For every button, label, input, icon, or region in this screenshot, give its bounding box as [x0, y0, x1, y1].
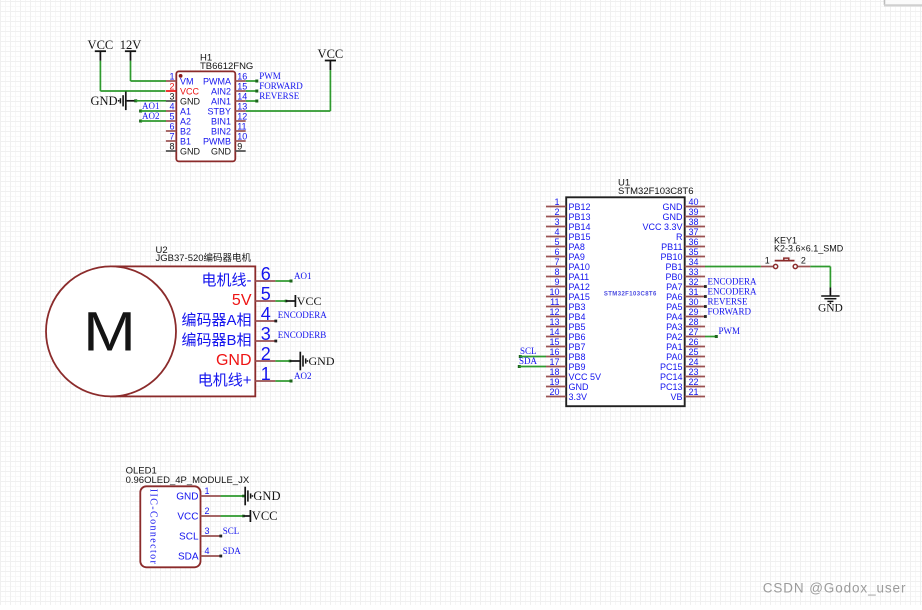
U1 pin 2 (PB13) left: [546, 216, 566, 218]
svg-text:REVERSE: REVERSE: [259, 91, 300, 101]
svg-text:VM: VM: [180, 76, 194, 86]
U1 pin 5 (PA8) left: [546, 246, 566, 248]
svg-text:VCC: VCC: [297, 294, 322, 308]
svg-text:PWMB: PWMB: [203, 136, 231, 146]
svg-text:1: 1: [205, 486, 210, 496]
wire FORWARD at H1 pin 15: [246, 90, 257, 92]
svg-text:PA7: PA7: [666, 282, 682, 292]
svg-text:GND: GND: [211, 146, 232, 156]
wire AO1 to H1 pin 4: [139, 110, 142, 113]
U1 pin 21 (VB) right: [685, 396, 705, 398]
ground GND (U2 pin 2): [299, 352, 301, 371]
svg-text:4: 4: [205, 546, 210, 556]
svg-text:6: 6: [261, 264, 271, 284]
wire VCC to H1 pin 2: [99, 61, 101, 91]
svg-text:A1: A1: [180, 106, 191, 116]
svg-text:21: 21: [689, 387, 699, 397]
H1 pin 5 (A2) left: [166, 120, 176, 122]
svg-text:GND: GND: [91, 94, 118, 108]
H1 pin 7 (B1) left: [166, 140, 176, 142]
svg-text:33: 33: [689, 267, 699, 277]
svg-text:B2: B2: [180, 126, 191, 136]
wire OLED1 pin 1 to GND: [221, 495, 244, 497]
wire KEY1 pin 2 to GND: [810, 266, 830, 268]
svg-text:14: 14: [549, 327, 559, 337]
svg-text:BIN2: BIN2: [211, 126, 231, 136]
svg-text:PA4: PA4: [666, 312, 682, 322]
svg-text:PA2: PA2: [666, 332, 682, 342]
U1 pin 15 (PB7) left: [546, 346, 566, 348]
OLED1 pin 2 (VCC): [201, 515, 221, 517]
svg-text:2: 2: [205, 506, 210, 516]
svg-text:ENCODERA: ENCODERA: [708, 277, 757, 287]
H1 pin 9 (GND) right: [235, 150, 245, 152]
wire AO1 at U2 pin 6: [275, 280, 290, 282]
svg-text:PB6: PB6: [569, 332, 586, 342]
svg-text:ENCODERA: ENCODERA: [708, 287, 757, 297]
U1 pin 37 (R) right: [685, 236, 705, 238]
H1 pin-1 marker dot: [179, 74, 183, 78]
IC H1 TB6612FNG body: [176, 71, 235, 161]
OLED1 pin 4 (SDA): [201, 555, 221, 557]
svg-text:FORWARD: FORWARD: [708, 307, 752, 317]
svg-text:25: 25: [689, 347, 699, 357]
svg-text:SCL: SCL: [223, 526, 240, 536]
svg-text:23: 23: [689, 367, 699, 377]
svg-text:8: 8: [554, 267, 559, 277]
svg-text:PA9: PA9: [569, 252, 585, 262]
wire SCL to U1 pin 16: [519, 355, 522, 358]
svg-text:BIN1: BIN1: [211, 116, 231, 126]
svg-text:1: 1: [169, 72, 174, 82]
motor U2 body rectangle: [111, 266, 255, 396]
U1 pin 34 (PB1) right: [685, 266, 705, 268]
svg-text:PA5: PA5: [666, 302, 682, 312]
svg-text:GND: GND: [309, 354, 335, 368]
svg-text:M: M: [83, 300, 136, 363]
svg-text:7: 7: [169, 132, 174, 142]
svg-text:PB0: PB0: [665, 272, 682, 282]
svg-text:1: 1: [261, 364, 271, 384]
ground GND (below KEY1): [821, 295, 839, 297]
svg-text:SDA: SDA: [178, 552, 199, 563]
H1 pin 3 (GND) left: [166, 100, 176, 102]
U1 pin 8 (PA11) left: [546, 276, 566, 278]
svg-text:10: 10: [237, 132, 247, 142]
svg-text:PA11: PA11: [569, 272, 590, 282]
U1 pin 35 (PB10) right: [685, 256, 705, 258]
H1 pin 2 (VCC) left: [166, 90, 176, 92]
svg-text:PC14: PC14: [660, 372, 683, 382]
svg-text:3: 3: [205, 526, 210, 536]
wire AO2 at U2 pin 1: [275, 380, 290, 382]
svg-text:6: 6: [554, 247, 559, 257]
svg-text:VCC: VCC: [318, 47, 344, 61]
U1 pin 9 (PA12) left: [546, 286, 566, 288]
U1 pin 23 (PC14) right: [685, 376, 705, 378]
net label ENCODERB (U2 pin 3): [274, 340, 277, 343]
svg-text:STM32F103C8T6: STM32F103C8T6: [604, 292, 657, 298]
U1 pin 6 (PA9) left: [546, 256, 566, 258]
svg-text:1: 1: [554, 197, 559, 207]
wire AO2 to H1 pin 5: [139, 120, 142, 123]
svg-text:16: 16: [549, 347, 559, 357]
svg-text:22: 22: [689, 377, 699, 387]
svg-text:PB5: PB5: [569, 322, 586, 332]
net label SCL (OLED1 pin 3): [219, 535, 222, 538]
U1 pin 1 (PB12) left: [546, 206, 566, 208]
svg-text:12: 12: [237, 112, 247, 122]
U1 pin 36 (PB11) right: [685, 246, 705, 248]
svg-text:37: 37: [689, 227, 699, 237]
svg-text:PB15: PB15: [569, 232, 591, 242]
svg-text:8: 8: [169, 142, 174, 152]
svg-text:STM32F103C8T6: STM32F103C8T6: [618, 186, 694, 197]
svg-text:4: 4: [554, 227, 559, 237]
svg-text:PA6: PA6: [666, 292, 682, 302]
net label FORWARD (U1 pin 29): [704, 315, 707, 318]
U2 pin 4 (编码器A相): [255, 320, 275, 322]
wire PWM at U1 pin 27: [705, 336, 716, 338]
net label ENCODERA (U2 pin 4): [274, 320, 277, 323]
svg-text:CSDN @Godox_user: CSDN @Godox_user: [763, 580, 907, 595]
svg-text:VCC: VCC: [180, 86, 200, 96]
OLED1 pin 3 (SCL): [201, 535, 221, 537]
H1 pin 13 (STBY) right: [235, 110, 245, 112]
svg-text:电机线-: 电机线-: [202, 272, 252, 289]
svg-text:5: 5: [261, 284, 271, 304]
svg-text:GND: GND: [663, 202, 684, 212]
svg-text:TB6612FNG: TB6612FNG: [200, 61, 253, 72]
U2 pin 2 (GND): [255, 360, 275, 362]
svg-text:PB12: PB12: [569, 202, 591, 212]
U1 pin 19 (GND) left: [546, 386, 566, 388]
svg-text:JGB37-520编码器电机: JGB37-520编码器电机: [156, 252, 252, 264]
svg-text:40: 40: [689, 197, 699, 207]
wire U2 pin 2 to GND: [275, 360, 290, 362]
U1 pin 27 (PA2) right: [685, 336, 705, 338]
svg-text:15: 15: [549, 337, 559, 347]
U2 pin 6 (电机线-): [255, 280, 275, 282]
svg-text:SDA: SDA: [519, 356, 538, 366]
svg-text:6: 6: [169, 122, 174, 132]
svg-text:PB1: PB1: [665, 262, 682, 272]
svg-text:STBY: STBY: [207, 106, 231, 116]
net label ENCODERA (U1 pin 32): [704, 285, 707, 288]
U1 pin 12 (PB4) left: [546, 316, 566, 318]
U1 pin 29 (PA4) right: [685, 316, 705, 318]
UI panel corner top-right: [884, 0, 922, 5]
svg-text:R: R: [676, 232, 683, 242]
svg-text:PA1: PA1: [666, 342, 682, 352]
svg-text:1: 1: [765, 255, 770, 265]
U1 pin 3 (PB14) left: [546, 226, 566, 228]
svg-text:PB8: PB8: [569, 352, 586, 362]
svg-text:VCC: VCC: [252, 509, 278, 523]
svg-text:GND: GND: [663, 212, 684, 222]
svg-text:28: 28: [689, 317, 699, 327]
svg-text:PA12: PA12: [569, 282, 590, 292]
svg-text:PB3: PB3: [569, 302, 586, 312]
svg-text:PB7: PB7: [569, 342, 586, 352]
U1 pin 39 (GND) right: [685, 216, 705, 218]
wire SDA to U1 pin 17: [518, 365, 521, 368]
svg-text:31: 31: [689, 287, 699, 297]
U1 pin 25 (PA0) right: [685, 356, 705, 358]
svg-text:9: 9: [237, 142, 242, 152]
wire 12V to H1 pin 1: [130, 61, 132, 81]
svg-text:2: 2: [261, 344, 271, 364]
svg-text:K2-3.6×6.1_SMD: K2-3.6×6.1_SMD: [774, 244, 844, 254]
svg-text:35: 35: [689, 247, 699, 257]
svg-text:11: 11: [550, 297, 559, 307]
svg-text:34: 34: [689, 257, 699, 267]
svg-text:2: 2: [801, 255, 806, 265]
U1 pin 4 (PB15) left: [546, 236, 566, 238]
svg-text:PB10: PB10: [660, 252, 682, 262]
H1 pin 12 (BIN1) right: [235, 120, 245, 122]
svg-text:PWM: PWM: [719, 326, 741, 336]
svg-text:0.96OLED_4P_MODULE_JX: 0.96OLED_4P_MODULE_JX: [126, 475, 250, 486]
svg-text:GND: GND: [176, 492, 198, 503]
U1 pin 38 (VCC 3.3V) right: [685, 226, 705, 228]
U2 pin 1 (电机线+): [255, 380, 275, 382]
pushbutton KEY1 symbol: [761, 266, 773, 268]
module OLED1 body: [140, 486, 200, 567]
svg-text:编码器B相: 编码器B相: [181, 332, 251, 349]
svg-text:9: 9: [554, 277, 559, 287]
svg-text:2: 2: [169, 82, 174, 92]
svg-text:VCC 5V: VCC 5V: [569, 372, 602, 382]
wire PWM at H1 pin 16: [246, 80, 257, 82]
svg-text:7: 7: [554, 257, 559, 267]
svg-text:19: 19: [549, 377, 559, 387]
svg-text:GND: GND: [569, 382, 590, 392]
U1 pin 32 (PA7) right: [685, 286, 705, 288]
svg-text:12: 12: [549, 307, 559, 317]
svg-text:36: 36: [689, 237, 699, 247]
H1 pin 11 (BIN2) right: [235, 130, 245, 132]
svg-text:SCL: SCL: [520, 346, 537, 356]
svg-text:AO1: AO1: [142, 101, 160, 111]
svg-text:PC13: PC13: [660, 382, 683, 392]
ground GND (OLED1 pin 1): [244, 487, 246, 506]
svg-text:5: 5: [554, 237, 559, 247]
svg-text:PA10: PA10: [569, 262, 590, 272]
svg-text:4: 4: [261, 304, 271, 324]
H1 pin 4 (A1) left: [166, 110, 176, 112]
svg-text:29: 29: [689, 307, 699, 317]
svg-text:11: 11: [237, 122, 246, 132]
U1 pin 11 (PB3) left: [546, 306, 566, 308]
U1 pin 14 (PB6) left: [546, 336, 566, 338]
svg-text:26: 26: [689, 337, 699, 347]
H1 pin 6 (B2) left: [166, 130, 176, 132]
U1 pin 40 (GND) right: [685, 206, 705, 208]
svg-text:AO2: AO2: [294, 371, 312, 381]
U1 pin 26 (PA1) right: [685, 346, 705, 348]
U2 pin 3 (编码器B相): [255, 340, 275, 342]
IC U1 STM32F103C8T6 body: [566, 197, 685, 406]
svg-text:24: 24: [689, 357, 699, 367]
wire REVERSE at H1 pin 14: [246, 100, 257, 102]
svg-text:AO2: AO2: [142, 111, 160, 121]
svg-text:PA8: PA8: [569, 242, 585, 252]
svg-text:VB: VB: [670, 392, 682, 402]
svg-text:GND: GND: [253, 489, 280, 503]
H1 pin 14 (AIN1) right: [235, 100, 245, 102]
svg-text:3.3V: 3.3V: [569, 392, 588, 402]
net label REVERSE (U1 pin 30): [704, 305, 707, 308]
H1 pin 10 (PWMB) right: [235, 140, 245, 142]
svg-text:PB9: PB9: [569, 362, 586, 372]
wire OLED1 pin 2 to VCC: [221, 515, 244, 517]
U1 pin 24 (PC15) right: [685, 366, 705, 368]
svg-text:PC15: PC15: [660, 362, 683, 372]
svg-text:5V: 5V: [232, 292, 252, 309]
svg-text:AIN1: AIN1: [211, 96, 231, 106]
svg-text:PA3: PA3: [666, 322, 682, 332]
H1 pin 1 (VM) left: [166, 80, 176, 82]
wire GND to H1 pin 3: [134, 99, 137, 102]
U1 pin 28 (PA3) right: [685, 326, 705, 328]
svg-text:30: 30: [689, 297, 699, 307]
U1 pin 31 (PA6) right: [685, 296, 705, 298]
svg-text:4: 4: [169, 102, 174, 112]
wire U1 pin 34 PB1 to KEY1 pin 1: [705, 266, 761, 268]
svg-text:39: 39: [689, 207, 699, 217]
OLED1 pin 1 (GND): [201, 495, 221, 497]
H1 pin 15 (AIN2) right: [235, 90, 245, 92]
svg-text:SDA: SDA: [223, 546, 242, 556]
svg-text:REVERSE: REVERSE: [708, 297, 749, 307]
svg-text:2: 2: [554, 207, 559, 217]
svg-text:FORWARD: FORWARD: [259, 81, 303, 91]
svg-text:3: 3: [261, 324, 271, 344]
svg-text:18: 18: [549, 367, 559, 377]
svg-text:B1: B1: [180, 136, 191, 146]
wire H1 pin 13 STBY to VCC: [246, 110, 331, 112]
net label ENCODERA (U1 pin 31): [704, 295, 707, 298]
svg-text:VCC 3.3V: VCC 3.3V: [642, 222, 682, 232]
svg-text:ENCODERA: ENCODERA: [278, 310, 327, 320]
svg-text:5: 5: [169, 112, 174, 122]
svg-text:20: 20: [549, 387, 559, 397]
svg-text:AIN2: AIN2: [211, 86, 231, 96]
U1 pin 33 (PB0) right: [685, 276, 705, 278]
svg-text:3: 3: [169, 92, 174, 102]
svg-text:12V: 12V: [120, 38, 142, 52]
svg-text:ENCODERB: ENCODERB: [278, 330, 327, 340]
svg-text:A2: A2: [180, 116, 191, 126]
U1 pin 30 (PA5) right: [685, 306, 705, 308]
svg-text:AO1: AO1: [294, 271, 312, 281]
svg-text:GND: GND: [216, 352, 252, 369]
H1 pin 16 (PWMA) right: [235, 80, 245, 82]
svg-text:PA0: PA0: [666, 352, 682, 362]
svg-text:PB4: PB4: [569, 312, 586, 322]
U1 pin 17 (PB9) left: [546, 366, 566, 368]
svg-text:GND: GND: [180, 146, 201, 156]
U1 pin 20 (3.3V) left: [546, 396, 566, 398]
U1 pin 10 (PA15) left: [546, 296, 566, 298]
svg-text:10: 10: [549, 287, 559, 297]
svg-text:3: 3: [554, 217, 559, 227]
svg-text:PB14: PB14: [569, 222, 591, 232]
U1 pin 22 (PC13) right: [685, 386, 705, 388]
power flag VCC (U2 pin 5): [294, 295, 296, 307]
svg-text:GND: GND: [818, 303, 843, 315]
svg-text:17: 17: [549, 357, 559, 367]
svg-text:GND: GND: [180, 96, 201, 106]
svg-text:VCC: VCC: [177, 512, 198, 523]
power flag VCC (OLED1 pin 2): [249, 510, 251, 522]
svg-text:PWM: PWM: [259, 71, 281, 81]
motor U2 circle: [46, 266, 176, 396]
svg-text:SCL: SCL: [179, 532, 199, 543]
svg-text:PB13: PB13: [569, 212, 591, 222]
U1 pin 13 (PB5) left: [546, 326, 566, 328]
wire U2 pin 5 to VCC: [275, 300, 286, 302]
svg-text:编码器A相: 编码器A相: [181, 312, 251, 329]
svg-text:13: 13: [549, 317, 559, 327]
svg-text:IIC-Connector: IIC-Connector: [147, 489, 158, 566]
svg-text:38: 38: [689, 217, 699, 227]
svg-text:PB11: PB11: [661, 242, 682, 252]
U2 pin 5 (5V): [255, 300, 275, 302]
svg-text:32: 32: [689, 277, 699, 287]
svg-text:电机线+: 电机线+: [198, 372, 252, 389]
U1 pin 18 (VCC 5V) left: [546, 376, 566, 378]
svg-text:PA15: PA15: [569, 292, 590, 302]
svg-text:VCC: VCC: [88, 38, 114, 52]
svg-text:27: 27: [689, 327, 699, 337]
H1 pin 8 (GND) left: [166, 150, 176, 152]
U1 pin 16 (PB8) left: [546, 356, 566, 358]
svg-text:PWMA: PWMA: [203, 76, 231, 86]
net label SDA (OLED1 pin 4): [219, 555, 222, 558]
U1 pin 7 (PA10) left: [546, 266, 566, 268]
